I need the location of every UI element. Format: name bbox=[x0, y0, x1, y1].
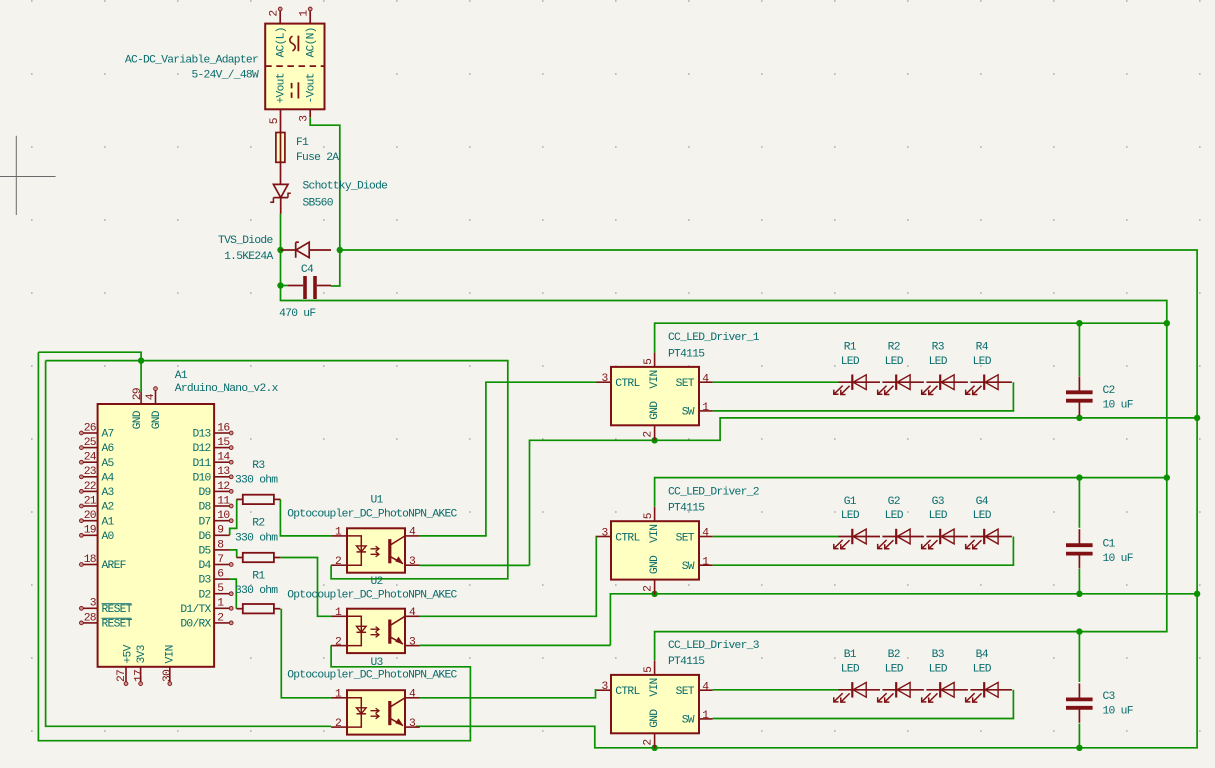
junction C1 top bbox=[1076, 474, 1082, 480]
svg-text:GND: GND bbox=[151, 410, 163, 429]
schottky diode bar with hooks bbox=[273, 197, 288, 199]
svg-text:3: 3 bbox=[601, 373, 608, 385]
svg-text:3: 3 bbox=[299, 115, 311, 122]
arduino bottom pin 27 +5V bbox=[125, 667, 127, 682]
svg-text:AC(L): AC(L) bbox=[276, 27, 288, 57]
svg-text:3: 3 bbox=[601, 527, 608, 539]
svg-text:1: 1 bbox=[217, 598, 224, 610]
svg-text:2: 2 bbox=[335, 718, 341, 730]
wire: U3 pin4 collector to driver3 CTRL bbox=[420, 690, 597, 698]
svg-text:PT4115: PT4115 bbox=[668, 503, 705, 515]
svg-text:D6: D6 bbox=[198, 531, 211, 543]
LED B1 emission arrows bbox=[834, 693, 843, 702]
LED G4 bbox=[970, 536, 1012, 538]
LED R1 bbox=[839, 381, 881, 383]
arduino left pin 28 RESET bbox=[83, 622, 98, 624]
driver 2 pin 1 SW bbox=[699, 564, 713, 566]
svg-text:U3: U3 bbox=[371, 657, 384, 669]
svg-text:GND: GND bbox=[649, 555, 661, 574]
svg-text:R4: R4 bbox=[976, 342, 989, 354]
LED R2 bbox=[882, 381, 924, 383]
svg-text:G4: G4 bbox=[976, 496, 989, 508]
optocoupler U1 internal LED bbox=[347, 536, 361, 565]
svg-text:GND: GND bbox=[132, 410, 144, 429]
LED B3 bbox=[926, 689, 968, 691]
svg-text:G3: G3 bbox=[932, 496, 945, 508]
svg-text:9: 9 bbox=[217, 525, 223, 537]
arduino right pin 12 D9 bbox=[214, 490, 230, 492]
optocoupler U2 pin 3 bbox=[405, 645, 420, 647]
svg-text:R1: R1 bbox=[844, 342, 857, 354]
svg-text:5-24V_/_48W: 5-24V_/_48W bbox=[191, 70, 258, 82]
svg-text:VIN: VIN bbox=[165, 645, 177, 663]
svg-text:16: 16 bbox=[217, 422, 230, 434]
svg-text:Optocoupler_DC_PhotoNPN_AKEC: Optocoupler_DC_PhotoNPN_AKEC bbox=[287, 589, 457, 601]
fuse F1 body bbox=[276, 133, 285, 163]
optocoupler U2 coupling arrows bbox=[371, 627, 380, 632]
svg-text:2: 2 bbox=[335, 636, 341, 648]
junction TVS left bbox=[277, 247, 283, 253]
svg-text:A3: A3 bbox=[102, 487, 115, 499]
svg-text:10 uF: 10 uF bbox=[1103, 553, 1133, 565]
svg-text:26: 26 bbox=[84, 422, 97, 434]
svg-text:13: 13 bbox=[217, 466, 230, 478]
wire: LED chain3 return loop to SW3 bbox=[713, 690, 1014, 719]
adapter dashed separator bbox=[265, 65, 324, 67]
svg-text:SW: SW bbox=[682, 715, 695, 727]
svg-text:B3: B3 bbox=[932, 649, 945, 661]
svg-text:22: 22 bbox=[84, 481, 96, 493]
optocoupler U2 pin 1 bbox=[331, 615, 347, 617]
wire: arduino D6 to R3 left bbox=[230, 499, 237, 535]
svg-text:8: 8 bbox=[217, 539, 224, 551]
capacitor C2 leads bbox=[1078, 376, 1080, 390]
LED B2 bbox=[882, 689, 924, 691]
resistor R2 body bbox=[243, 553, 274, 562]
optocoupler U3 internal LED bbox=[347, 698, 361, 727]
svg-text:TVS_Diode: TVS_Diode bbox=[218, 235, 273, 247]
wire: driver1 GND rail from U1 emitter up and right to C2 bottom rail bbox=[530, 418, 1198, 566]
optocoupler U3 phototransistor bbox=[388, 701, 391, 725]
svg-text:12: 12 bbox=[217, 481, 229, 493]
svg-text:LED: LED bbox=[973, 663, 992, 675]
svg-text:G2: G2 bbox=[888, 496, 900, 508]
svg-text:D12: D12 bbox=[192, 443, 210, 455]
svg-text:3V3: 3V3 bbox=[136, 644, 148, 663]
arduino right pin 11 D8 bbox=[214, 505, 230, 507]
svg-text:330 ohm: 330 ohm bbox=[235, 532, 278, 544]
optocoupler U1 pin 3 bbox=[405, 564, 420, 566]
wire: driver2 GND rail / C1 bottom rail bbox=[610, 594, 1197, 646]
svg-text:AC-DC_Variable_Adapter: AC-DC_Variable_Adapter bbox=[125, 55, 258, 67]
wire: C1 bottom lead wire bbox=[1078, 569, 1080, 594]
capacitor C4 leads bbox=[288, 285, 303, 287]
junction TVS right bbox=[337, 247, 343, 253]
junction C1 bottom bbox=[1076, 591, 1082, 597]
junction VIN2 x trunk bbox=[1164, 474, 1170, 480]
arduino right pin 7 D4 bbox=[214, 564, 230, 566]
svg-text:C2: C2 bbox=[1103, 385, 1115, 397]
optocoupler U1 body bbox=[347, 528, 405, 572]
svg-text:28: 28 bbox=[84, 612, 97, 624]
svg-text:1: 1 bbox=[335, 689, 342, 701]
wire: LED chain2 SET wire bbox=[713, 536, 839, 538]
LED G3 emission arrows bbox=[922, 540, 931, 549]
svg-text:A0: A0 bbox=[102, 531, 115, 543]
arduino right pin 14 D11 bbox=[214, 461, 230, 463]
svg-text:LED: LED bbox=[929, 510, 948, 522]
LED driver U3 CC_LED_Driver_3 body bbox=[611, 675, 699, 733]
svg-text:VIN: VIN bbox=[649, 678, 661, 696]
arduino right pin 5 D2 bbox=[214, 593, 230, 595]
svg-text:SW: SW bbox=[682, 407, 695, 419]
svg-text:3: 3 bbox=[601, 681, 608, 693]
wire: GND rail from TVS right along top to right edge and down to bottom ground rail bbox=[340, 250, 1197, 748]
svg-text:LED: LED bbox=[885, 356, 904, 368]
arduino right pin 2 D0/RX bbox=[214, 622, 230, 624]
svg-text:LED: LED bbox=[973, 510, 992, 522]
junction arduino GND bbox=[138, 357, 144, 363]
svg-text:CTRL: CTRL bbox=[615, 378, 640, 390]
svg-text:2: 2 bbox=[643, 432, 655, 438]
wire: LED chain1 SET wire bbox=[713, 381, 839, 383]
svg-text:LED: LED bbox=[885, 663, 904, 675]
capacitor C1 leads bbox=[1078, 529, 1080, 543]
svg-text:CC_LED_Driver_2: CC_LED_Driver_2 bbox=[668, 486, 759, 498]
svg-text:D9: D9 bbox=[198, 487, 210, 499]
LED G3 bbox=[926, 536, 968, 538]
svg-text:AREF: AREF bbox=[102, 560, 126, 572]
svg-text:GND: GND bbox=[649, 401, 661, 420]
driver 3 pin 1 SW bbox=[699, 718, 713, 720]
schottky diode SB560 triangle bbox=[273, 184, 288, 197]
LED G1 bbox=[839, 536, 881, 538]
wire: R2 right to U2 pin1 anode bbox=[280, 558, 331, 617]
LED R3 emission arrows bbox=[922, 386, 931, 395]
wire: arduino D5 to R2 left bbox=[230, 550, 237, 558]
svg-text:LED: LED bbox=[841, 510, 860, 522]
junction C2 top bbox=[1076, 320, 1082, 326]
svg-text:+Vout: +Vout bbox=[276, 73, 288, 103]
LED R1 emission arrows bbox=[834, 386, 843, 395]
svg-text:Arduino_Nano_v2.x: Arduino_Nano_v2.x bbox=[175, 383, 279, 395]
driver 3 pin 3 CTRL bbox=[597, 689, 612, 691]
svg-text:2: 2 bbox=[269, 11, 281, 17]
junction driver2 GND pin bbox=[651, 591, 657, 597]
junction C2 bottom bbox=[1076, 415, 1082, 421]
LED B4 bbox=[970, 689, 1012, 691]
wire: C1 top lead wire bbox=[1078, 478, 1080, 528]
wire: VIN rail driver1 / C2 top bbox=[655, 323, 1167, 352]
resistor R3 leads bbox=[237, 498, 243, 500]
svg-text:A1: A1 bbox=[102, 516, 115, 528]
junction C2 rail x gnd trunk bbox=[1194, 415, 1200, 421]
svg-text:11: 11 bbox=[217, 495, 230, 507]
resistor R3 body bbox=[243, 495, 274, 504]
arduino left pin 21 A2 bbox=[83, 505, 98, 507]
arduino right pin 13 D10 bbox=[214, 476, 230, 478]
svg-text:F1: F1 bbox=[296, 137, 309, 149]
svg-text:+5V: +5V bbox=[122, 644, 134, 663]
adapter pin 2 AC(L) bbox=[279, 10, 281, 23]
driver 1 pin 3 CTRL bbox=[597, 381, 612, 383]
driver 3 pin 5 VIN bbox=[654, 661, 656, 675]
svg-text:17: 17 bbox=[134, 670, 146, 682]
capacitor C3 plates bbox=[1066, 698, 1093, 702]
optocoupler U1 coupling arrows bbox=[371, 546, 380, 551]
junction C3 bottom bbox=[1076, 745, 1082, 751]
arduino nano A1 body bbox=[98, 404, 215, 667]
junction C1 rail x gnd trunk bbox=[1194, 591, 1200, 597]
driver 2 pin 2 GND bbox=[654, 580, 656, 595]
svg-text:A6: A6 bbox=[102, 443, 115, 455]
svg-text:CTRL: CTRL bbox=[615, 686, 640, 698]
svg-text:10: 10 bbox=[217, 510, 230, 522]
svg-text:D8: D8 bbox=[198, 502, 211, 514]
fuse F1 lead to schottky bbox=[280, 162, 282, 184]
svg-text:2: 2 bbox=[335, 556, 341, 568]
wire: adapter -Vout pin3 down-right to C4 right / TVS right column bbox=[310, 117, 340, 286]
optocoupler U2 pin 4 bbox=[405, 615, 420, 617]
arduino left pin 18 AREF bbox=[83, 564, 98, 566]
svg-text:SW: SW bbox=[682, 561, 695, 573]
svg-text:CTRL: CTRL bbox=[615, 532, 640, 544]
svg-text:SET: SET bbox=[676, 378, 695, 390]
TVS diode 1.5KE24A bbox=[281, 249, 296, 251]
svg-text:D2: D2 bbox=[198, 589, 210, 601]
svg-text:23: 23 bbox=[84, 466, 97, 478]
svg-text:VIN: VIN bbox=[649, 525, 661, 543]
svg-text:470 uF: 470 uF bbox=[279, 308, 315, 320]
optocoupler U3 body bbox=[347, 690, 405, 734]
optocoupler U1 pin 2 bbox=[331, 564, 347, 566]
arduino right pin 15 D12 bbox=[214, 447, 230, 449]
svg-text:7: 7 bbox=[217, 554, 223, 566]
optocoupler U1 pin 1 bbox=[331, 535, 347, 537]
junction C3 top bbox=[1076, 628, 1082, 634]
LED R2 emission arrows bbox=[878, 386, 887, 395]
junction VIN1 x trunk bbox=[1164, 320, 1170, 326]
adapter DC dashed bar icon bbox=[291, 83, 293, 98]
svg-text:Optocoupler_DC_PhotoNPN_AKEC: Optocoupler_DC_PhotoNPN_AKEC bbox=[287, 669, 457, 681]
arduino bottom pin 17 3V3 bbox=[140, 667, 142, 682]
wire: GND inner trunk down left side to U3 pin2 bbox=[46, 361, 332, 727]
svg-text:PT4115: PT4115 bbox=[668, 656, 705, 668]
svg-text:5: 5 bbox=[269, 117, 281, 124]
svg-text:R3: R3 bbox=[932, 342, 945, 354]
arduino right pin 8 D5 bbox=[214, 549, 230, 551]
LED B1 bbox=[839, 689, 881, 691]
driver 1 pin 2 GND bbox=[654, 425, 656, 440]
junction driver3 GND pin bbox=[651, 745, 657, 751]
sheet origin crosshair bbox=[0, 136, 56, 215]
optocoupler U1 phototransistor bbox=[388, 539, 391, 563]
svg-text:D10: D10 bbox=[192, 472, 211, 484]
capacitor C2 plates bbox=[1066, 390, 1093, 394]
svg-text:D1/TX: D1/TX bbox=[180, 604, 211, 616]
svg-text:5: 5 bbox=[217, 583, 224, 595]
arduino right pin 9 D6 bbox=[214, 534, 230, 536]
adapter pin 5 +Vout bbox=[280, 109, 282, 132]
svg-text:CC_LED_Driver_3: CC_LED_Driver_3 bbox=[668, 640, 760, 652]
driver 3 pin 4 SET bbox=[699, 689, 713, 691]
wire: junction to arduino GND pin29 bbox=[140, 361, 142, 392]
svg-text:330 ohm: 330 ohm bbox=[235, 474, 278, 486]
wire: LED chain1 return loop to SW1 bbox=[713, 382, 1014, 411]
wire: GND outer jog at arduino top bbox=[38, 352, 141, 360]
arduino left pin 25 A6 bbox=[83, 447, 98, 449]
LED G2 bbox=[882, 536, 924, 538]
svg-text:C3: C3 bbox=[1103, 691, 1116, 703]
wire: C2 bottom lead wire bbox=[1078, 415, 1080, 418]
svg-text:R3: R3 bbox=[252, 460, 265, 472]
svg-text:LED: LED bbox=[929, 356, 948, 368]
svg-text:B2: B2 bbox=[888, 649, 900, 661]
wire: GND outer trunk down left side to U2 pin2 bbox=[38, 352, 470, 741]
svg-text:RESET: RESET bbox=[102, 604, 133, 616]
svg-text:A2: A2 bbox=[102, 502, 114, 514]
LED G4 emission arrows bbox=[966, 540, 975, 549]
wire: U1 pin4 collector to driver1 CTRL bbox=[420, 382, 597, 536]
svg-text:24: 24 bbox=[84, 452, 97, 464]
svg-text:SET: SET bbox=[676, 686, 695, 698]
svg-text:B4: B4 bbox=[976, 649, 989, 661]
arduino left pin 3 RESET bbox=[83, 607, 98, 609]
arduino top pin 4 GND bbox=[155, 390, 157, 404]
optocoupler U3 pin 1 bbox=[331, 697, 347, 699]
resistor R1 leads bbox=[237, 608, 243, 610]
svg-text:LED: LED bbox=[841, 663, 860, 675]
svg-text:27: 27 bbox=[116, 670, 128, 682]
LED B3 emission arrows bbox=[922, 693, 931, 702]
svg-text:5: 5 bbox=[643, 666, 655, 673]
svg-text:4: 4 bbox=[409, 689, 416, 701]
resistor R1 body bbox=[243, 604, 274, 613]
wire: U2 pin3 to rail bbox=[420, 644, 611, 646]
svg-text:AC(N): AC(N) bbox=[306, 27, 318, 57]
capacitor C3 leads bbox=[1078, 683, 1080, 697]
optocoupler U2 internal LED bbox=[347, 616, 361, 645]
adapter pin 1 AC(N) bbox=[309, 10, 311, 23]
driver 3 pin 2 GND bbox=[654, 733, 656, 748]
svg-text:A4: A4 bbox=[102, 472, 115, 484]
schottky lead down bbox=[280, 198, 282, 214]
svg-text:D4: D4 bbox=[198, 560, 211, 572]
adapter DC solid bar icon bbox=[297, 82, 299, 98]
LED R3 bbox=[926, 381, 968, 383]
arduino right pin 6 D3 bbox=[214, 578, 230, 580]
junction driver1 GND pin bbox=[651, 437, 657, 443]
svg-text:3: 3 bbox=[409, 636, 416, 648]
svg-text:PT4115: PT4115 bbox=[668, 348, 705, 360]
optocoupler U2 pin 2 bbox=[331, 645, 347, 647]
LED driver U1 CC_LED_Driver_1 body bbox=[611, 367, 699, 425]
svg-text:10 uF: 10 uF bbox=[1103, 400, 1133, 412]
svg-text:1.5KE24A: 1.5KE24A bbox=[224, 251, 273, 263]
svg-text:A5: A5 bbox=[102, 458, 115, 470]
driver 1 pin 1 SW bbox=[699, 410, 713, 412]
svg-text:SET: SET bbox=[676, 532, 695, 544]
svg-text:VIN: VIN bbox=[649, 370, 661, 388]
svg-text:R2: R2 bbox=[888, 342, 900, 354]
arduino left pin 22 A3 bbox=[83, 490, 98, 492]
optocoupler U2 phototransistor bbox=[388, 620, 391, 644]
svg-text:LED: LED bbox=[841, 356, 860, 368]
svg-text:25: 25 bbox=[84, 437, 97, 449]
svg-text:19: 19 bbox=[84, 525, 96, 537]
svg-text:D0/RX: D0/RX bbox=[180, 619, 211, 631]
svg-text:21: 21 bbox=[84, 495, 97, 507]
svg-text:4: 4 bbox=[702, 681, 709, 693]
svg-text:D5: D5 bbox=[198, 546, 211, 558]
svg-text:CC_LED_Driver_1: CC_LED_Driver_1 bbox=[668, 332, 760, 344]
optocoupler U3 coupling arrows bbox=[371, 708, 380, 713]
svg-text:3: 3 bbox=[409, 556, 416, 568]
capacitor C1 plates bbox=[1066, 543, 1093, 547]
LED driver U2 CC_LED_Driver_2 body bbox=[611, 521, 699, 579]
svg-text:C1: C1 bbox=[1103, 539, 1116, 551]
svg-text:R1: R1 bbox=[252, 570, 265, 582]
svg-text:D11: D11 bbox=[192, 458, 211, 470]
wire: C2 top lead wire bbox=[1078, 323, 1080, 376]
wire: C3 bottom lead wire bbox=[1078, 724, 1080, 748]
driver 2 pin 5 VIN bbox=[654, 507, 656, 521]
svg-text:LED: LED bbox=[973, 356, 992, 368]
optocoupler U3 pin 3 bbox=[405, 726, 420, 728]
svg-text:D7: D7 bbox=[198, 516, 210, 528]
svg-text:29: 29 bbox=[132, 388, 144, 400]
arduino right pin 1 D1/TX bbox=[214, 607, 230, 609]
svg-text:1: 1 bbox=[702, 402, 709, 414]
svg-text:4: 4 bbox=[702, 373, 709, 385]
optocoupler U3 pin 2 bbox=[331, 726, 347, 728]
svg-text:LED: LED bbox=[929, 663, 948, 675]
svg-text:1: 1 bbox=[335, 607, 342, 619]
driver 1 pin 5 VIN bbox=[654, 353, 656, 367]
wire: LED chain3 SET wire bbox=[713, 689, 839, 691]
resistor R2 leads bbox=[237, 557, 243, 559]
svg-text:SB560: SB560 bbox=[303, 197, 334, 209]
svg-text:3: 3 bbox=[409, 718, 416, 730]
arduino left pin 26 A7 bbox=[83, 432, 98, 434]
svg-text:4: 4 bbox=[409, 527, 416, 539]
driver 2 pin 4 SET bbox=[699, 536, 713, 538]
wire: GND rail to U1 LED cathode (pin2) bbox=[46, 361, 508, 579]
optocoupler U2 body bbox=[347, 609, 405, 653]
svg-text:Fuse 2A: Fuse 2A bbox=[296, 152, 339, 164]
svg-text:1: 1 bbox=[702, 710, 709, 722]
svg-text:4: 4 bbox=[409, 607, 416, 619]
svg-text:D13: D13 bbox=[192, 429, 211, 441]
arduino top pin 29 GND bbox=[140, 392, 142, 404]
adapter AC bar icon bbox=[297, 36, 299, 52]
svg-text:1: 1 bbox=[702, 556, 709, 568]
wire: +V column from schottky down through TVS/C4 junctions bbox=[281, 214, 1167, 661]
arduino left pin 20 A1 bbox=[83, 520, 98, 522]
svg-text:A1: A1 bbox=[175, 370, 188, 382]
svg-text:1: 1 bbox=[335, 527, 342, 539]
svg-text:10 uF: 10 uF bbox=[1103, 706, 1133, 718]
wire: arduino D3 to R1 left bbox=[230, 579, 237, 609]
svg-text:4: 4 bbox=[145, 393, 157, 400]
LED G2 emission arrows bbox=[878, 540, 887, 549]
wire: C3 top lead wire bbox=[1078, 632, 1080, 682]
driver 2 pin 3 CTRL bbox=[597, 536, 612, 538]
svg-text:Optocoupler_DC_PhotoNPN_AKEC: Optocoupler_DC_PhotoNPN_AKEC bbox=[287, 508, 457, 520]
svg-text:R2: R2 bbox=[252, 517, 264, 529]
LED B2 emission arrows bbox=[878, 693, 887, 702]
svg-text:RESET: RESET bbox=[102, 619, 133, 631]
